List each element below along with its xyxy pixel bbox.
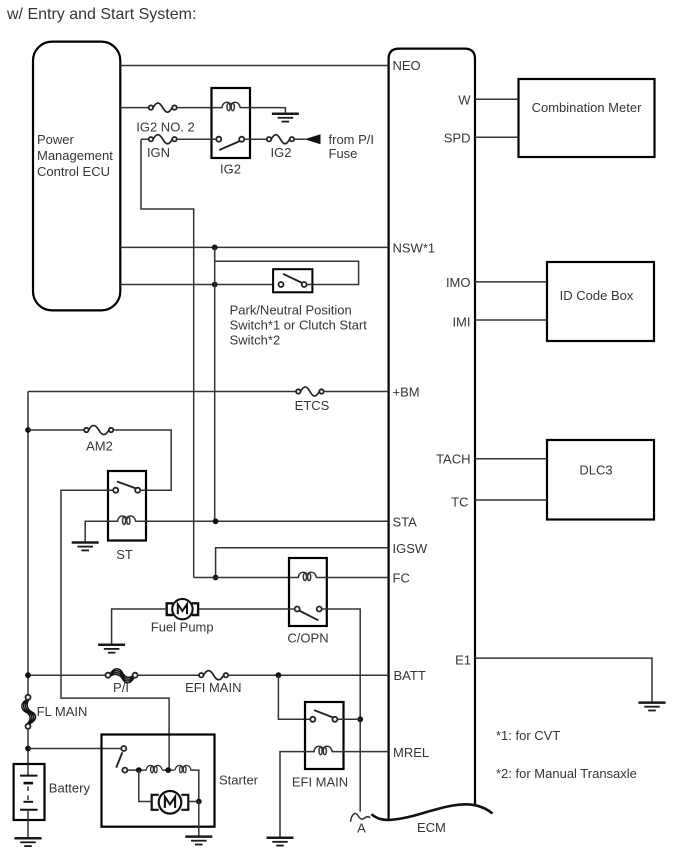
node BATT-bus junction bbox=[25, 672, 31, 678]
wire IGSW from ECM down to FC bbox=[216, 548, 389, 578]
wire starter switch to coil bbox=[127, 769, 146, 771]
relay C/OPN box bbox=[289, 558, 327, 626]
svg-text:*2: for Manual Transaxle: *2: for Manual Transaxle bbox=[496, 766, 637, 781]
svg-text:Starter: Starter bbox=[219, 772, 259, 787]
wire M-right to starter ground bbox=[188, 802, 199, 837]
svg-text:SPD: SPD bbox=[444, 130, 471, 145]
svg-text:Park/Neutral Position: Park/Neutral Position bbox=[230, 302, 352, 317]
svg-text:+BM: +BM bbox=[393, 385, 420, 400]
svg-text:ST: ST bbox=[116, 547, 133, 562]
wire battery to ground bbox=[27, 820, 29, 838]
wire P/I to EFI MAIN fuse bbox=[137, 674, 199, 676]
node AM2 junction bbox=[25, 427, 31, 433]
svg-text:STA: STA bbox=[393, 514, 418, 529]
park/neutral switch right stub bbox=[307, 284, 313, 286]
ground (IG2 relay coil) bbox=[272, 114, 299, 122]
svg-text:A: A bbox=[357, 821, 366, 836]
Combination Meter box bbox=[519, 79, 655, 157]
svg-text:ETCS: ETCS bbox=[295, 398, 330, 413]
svg-text:Management: Management bbox=[37, 148, 113, 163]
node STA junction bbox=[213, 518, 219, 524]
svg-text:IGSW: IGSW bbox=[393, 541, 428, 556]
starter solenoid coil 2 bbox=[175, 765, 191, 772]
ground (EFI MAIN relay) bbox=[267, 838, 294, 846]
svg-text:Battery: Battery bbox=[49, 781, 91, 796]
wire NSW bus down to STA bbox=[214, 247, 216, 521]
relay ST switch blade bbox=[117, 482, 137, 489]
ECM wavy bottom edge bbox=[372, 804, 493, 820]
wire IG2 fuse to arrow bbox=[294, 138, 305, 140]
ground (E1) bbox=[639, 703, 666, 711]
svg-text:TACH: TACH bbox=[436, 452, 470, 467]
wire NEO from ECU to ECM bbox=[120, 65, 388, 67]
wire TACH to DLC3 bbox=[475, 458, 547, 460]
label Park/Neutral Position Switch bbox=[230, 302, 368, 347]
svg-text:EFI MAIN: EFI MAIN bbox=[292, 775, 348, 790]
motor Fuel Pump bbox=[167, 599, 198, 619]
svg-text:IG2: IG2 bbox=[271, 145, 292, 160]
svg-text:DLC3: DLC3 bbox=[579, 463, 612, 478]
arrow from P/I fuse bbox=[305, 134, 321, 144]
svg-text:MREL: MREL bbox=[393, 745, 429, 760]
svg-text:ID Code Box: ID Code Box bbox=[560, 288, 634, 303]
starter switch blade bbox=[116, 752, 122, 767]
wire BATT bus to P/I link bbox=[28, 674, 105, 676]
relay EFI MAIN box bbox=[305, 702, 344, 769]
node NSW junction bbox=[212, 245, 218, 251]
Power Management Control ECU box bbox=[33, 42, 120, 311]
fusible link P/I bbox=[106, 669, 138, 683]
relay ST switch contacts bbox=[113, 488, 118, 493]
wire ETCS fuse to ECM +BM bbox=[324, 391, 389, 393]
svg-text:IGN: IGN bbox=[147, 145, 170, 160]
fuse ETCS bbox=[296, 387, 324, 396]
relay C/OPN switch blade bbox=[299, 611, 318, 621]
wire M-left drop bbox=[139, 770, 152, 801]
svg-text:E1: E1 bbox=[455, 652, 471, 667]
fuse EFI MAIN bbox=[199, 671, 228, 680]
svg-text:IG2: IG2 bbox=[220, 162, 241, 177]
fuse AM2 bbox=[84, 425, 113, 434]
svg-text:Combination Meter: Combination Meter bbox=[532, 100, 642, 115]
relay IG2 box bbox=[212, 88, 251, 158]
wire C/OPN coil to ECM FC bbox=[316, 577, 389, 579]
svg-text:Switch*2: Switch*2 bbox=[230, 333, 281, 348]
starter box bbox=[102, 735, 215, 827]
wire ECU to IG2 NO.2 fuse bbox=[120, 107, 148, 109]
wire coil 2 to M-right bbox=[190, 770, 199, 801]
relay IG2 switch contacts bbox=[216, 137, 221, 142]
ground (battery) bbox=[15, 838, 42, 846]
relay EFI MAIN coil bbox=[314, 746, 332, 754]
node EFI relay junction bbox=[357, 716, 363, 722]
wire EFI coil left to ground bbox=[280, 752, 315, 838]
wire bus to AM2 fuse bbox=[28, 429, 84, 431]
park/neutral switch contacts bbox=[279, 282, 284, 287]
connector A squiggle bbox=[351, 813, 371, 821]
wire fuel pump left to ground bbox=[112, 609, 167, 645]
battery bbox=[14, 764, 45, 820]
wire FL MAIN to battery bbox=[27, 729, 29, 765]
wire IG2 relay switch to IG2 fuse bbox=[244, 138, 267, 140]
wire BATT junction down to EFI relay switch bbox=[278, 675, 310, 719]
wire NSW*1 from ECU to ECM bbox=[120, 246, 388, 248]
ground (ST relay) bbox=[72, 543, 99, 551]
relay C/OPN coil bbox=[298, 572, 316, 580]
svg-text:C/OPN: C/OPN bbox=[287, 630, 328, 645]
svg-text:Fuel Pump: Fuel Pump bbox=[151, 620, 214, 635]
wire TC to DLC3 bbox=[475, 499, 547, 501]
svg-text:P/I: P/I bbox=[113, 680, 129, 695]
wire between coils bbox=[162, 769, 174, 771]
relay EFI MAIN switch contacts bbox=[310, 717, 315, 722]
wire AM2 fuse to ST switch bbox=[113, 430, 171, 490]
svg-text:*1: for CVT: *1: for CVT bbox=[496, 728, 560, 743]
svg-text:IMI: IMI bbox=[452, 314, 470, 329]
fuse IGN bbox=[149, 135, 177, 144]
wire +BM from bus to ETCS fuse bbox=[28, 391, 296, 393]
relay EFI MAIN switch blade bbox=[314, 710, 334, 718]
svg-text:TC: TC bbox=[451, 494, 468, 509]
wire NSW loop to park/neutral switch right bbox=[215, 247, 359, 284]
svg-text:NSW*1: NSW*1 bbox=[393, 240, 436, 255]
wire C/OPN switch right down to node A bbox=[322, 609, 361, 812]
relay ST coil bbox=[117, 516, 135, 524]
wire C/OPN switch left to fuel pump bbox=[199, 608, 295, 610]
wire IGN drop to FC line bbox=[141, 139, 194, 577]
starter switch contacts bbox=[121, 746, 126, 751]
wire IGN corner to fuse bbox=[141, 138, 149, 140]
park/neutral switch blade bbox=[283, 274, 302, 283]
wire fuse to IG2 relay coil bbox=[177, 107, 223, 109]
wire EFI relay switch right to junction bbox=[337, 718, 360, 720]
wire FC line to C/OPN coil bbox=[194, 577, 300, 579]
wire STA from ST coil to ECM bbox=[135, 520, 389, 522]
wire left bus down bbox=[27, 392, 29, 696]
svg-text:W: W bbox=[458, 92, 471, 107]
svg-text:Fuse: Fuse bbox=[329, 146, 358, 161]
ID Code Box bbox=[547, 262, 654, 341]
ground (fuel pump) bbox=[98, 645, 125, 653]
relay IG2 switch blade bbox=[219, 141, 240, 150]
svg-text:EFI MAIN: EFI MAIN bbox=[185, 680, 241, 695]
svg-text:Switch*1 or Clutch Start: Switch*1 or Clutch Start bbox=[230, 318, 368, 333]
fuse IG2 bbox=[267, 135, 294, 144]
DLC3 box bbox=[547, 440, 654, 520]
wire IG2 relay coil to ground bbox=[240, 108, 286, 114]
motor starter M bbox=[152, 791, 189, 814]
wire SPD to combination meter bbox=[475, 136, 519, 138]
wire IGN fuse to IG2 relay switch bbox=[177, 138, 217, 140]
wire ECU to park/neutral switch left bbox=[120, 284, 278, 286]
relay IG2 coil bbox=[222, 102, 240, 110]
wire E1 to ground bbox=[475, 658, 652, 703]
node starter coils junction bbox=[165, 767, 171, 773]
node EFI relay feed junction bbox=[276, 672, 282, 678]
relay ST box bbox=[108, 471, 146, 541]
svg-text:AM2: AM2 bbox=[86, 438, 113, 453]
fusible link FL MAIN bbox=[22, 695, 36, 729]
svg-text:Power: Power bbox=[37, 132, 75, 147]
svg-text:IG2 NO. 2: IG2 NO. 2 bbox=[136, 119, 195, 134]
svg-text:w/ Entry and Start System:: w/ Entry and Start System: bbox=[6, 6, 196, 23]
wire ST switch left down to starter coil bbox=[61, 490, 169, 770]
node starter feed junction bbox=[25, 746, 31, 752]
fuse IG2 NO. 2 bbox=[149, 103, 177, 112]
wire MREL from coil to ECM bbox=[332, 751, 389, 753]
node FC junction bbox=[213, 575, 219, 581]
svg-text:FL MAIN: FL MAIN bbox=[37, 704, 88, 719]
wire IMO to ID code box bbox=[475, 281, 547, 283]
node park/neutral junction bbox=[212, 282, 218, 288]
wire ST coil left to ground bbox=[85, 521, 118, 542]
svg-text:BATT: BATT bbox=[394, 668, 426, 683]
switch Park/Neutral Position box bbox=[273, 269, 312, 292]
node starter M-right junction bbox=[196, 799, 202, 805]
svg-text:ECM: ECM bbox=[417, 820, 446, 835]
svg-text:NEO: NEO bbox=[393, 58, 421, 73]
node starter M-left junction bbox=[136, 767, 142, 773]
svg-text:IMO: IMO bbox=[446, 275, 471, 290]
relay C/OPN switch contacts bbox=[295, 607, 300, 612]
wire battery to starter switch bbox=[28, 748, 121, 750]
ground (starter) bbox=[185, 837, 212, 845]
ECM box outline bbox=[389, 49, 475, 820]
svg-text:Control ECU: Control ECU bbox=[37, 164, 110, 179]
svg-text:from P/I: from P/I bbox=[329, 132, 375, 147]
wire W to combination meter bbox=[475, 98, 519, 100]
starter solenoid coil 1 bbox=[146, 765, 162, 772]
svg-text:FC: FC bbox=[393, 571, 410, 586]
wire EFI MAIN fuse to ECM BATT bbox=[228, 674, 389, 676]
wire IMI to ID code box bbox=[475, 319, 547, 321]
